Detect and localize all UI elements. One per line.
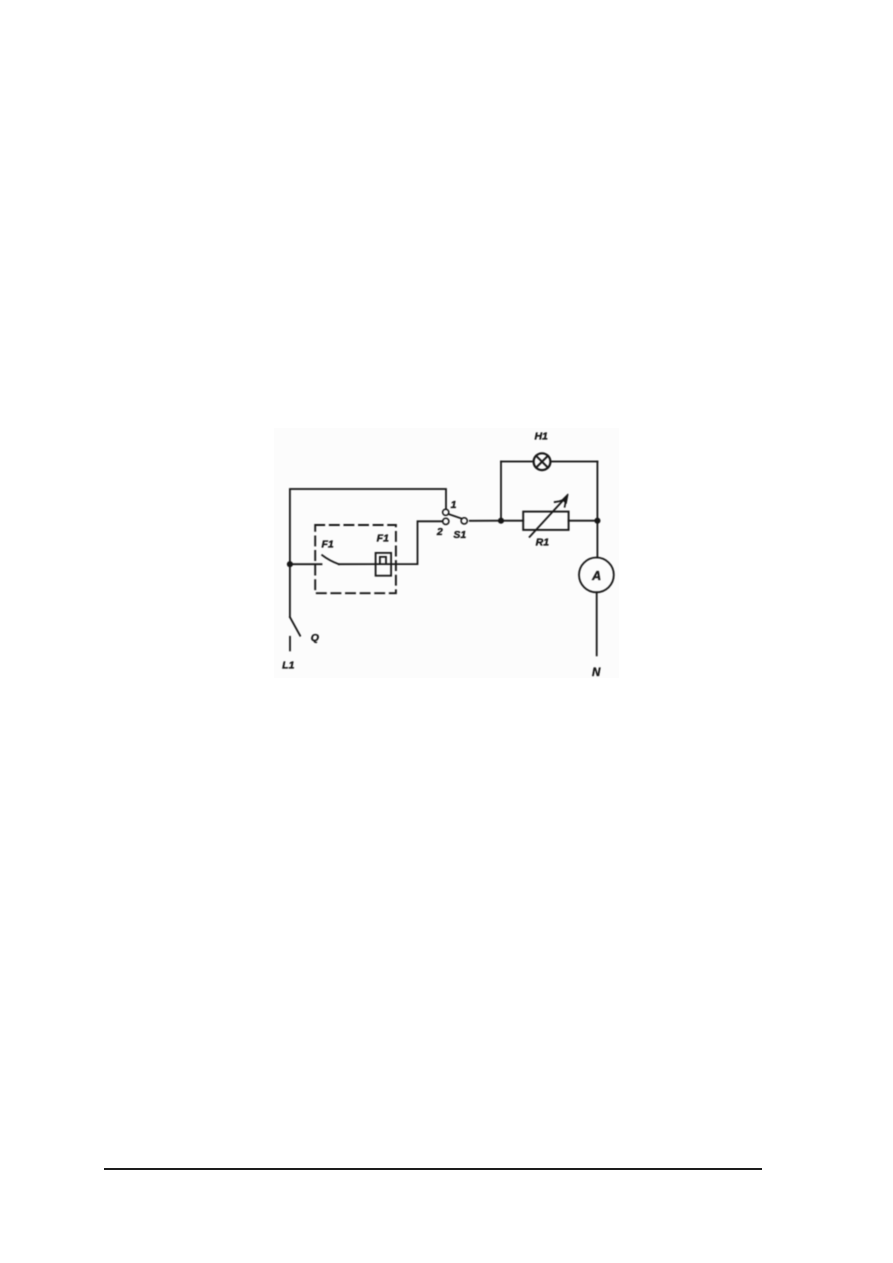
disconnector Q upper wire xyxy=(289,564,291,617)
wire: lamp top rail left segment xyxy=(501,461,534,463)
disconnector Q lower stub xyxy=(289,637,291,651)
wire: contact F1 to fuse F1 xyxy=(339,563,376,565)
disconnector Q blade xyxy=(290,617,300,636)
svg-text:R1: R1 xyxy=(536,536,550,548)
wire: node to R1 left terminal xyxy=(501,520,523,522)
wire: junction to contact F1 xyxy=(290,563,322,565)
svg-text:2: 2 xyxy=(436,526,443,538)
scanned schematic image block xyxy=(274,428,619,678)
svg-text:A: A xyxy=(591,569,601,583)
svg-text:H1: H1 xyxy=(534,430,548,442)
ammeter A body xyxy=(579,558,614,593)
fuse F1 body xyxy=(376,553,392,576)
wire: S1 common to left parallel node xyxy=(470,520,501,522)
svg-text:F1: F1 xyxy=(321,539,333,551)
wire: ammeter to terminal N xyxy=(596,592,598,655)
dashed enclosure box around F1 xyxy=(315,525,396,593)
wire: left riser and top feeder from node to selector xyxy=(290,489,446,564)
selector S1 blade xyxy=(449,514,462,518)
resistor R1 arrowhead xyxy=(555,494,568,507)
resistor R1 adjustment arrow shaft xyxy=(530,497,566,537)
fuse F1 thermal element xyxy=(380,557,386,564)
selector S1 contact 1 xyxy=(443,509,449,515)
lamp H1 cross xyxy=(536,456,548,468)
svg-text:Q: Q xyxy=(311,632,319,644)
svg-text:1: 1 xyxy=(451,499,457,511)
wire: through fuse and up to selector contact 2 xyxy=(376,521,443,564)
node: main left junction dot xyxy=(287,561,293,567)
selector S1 common pole xyxy=(461,518,467,524)
resistor R1 body xyxy=(523,512,568,530)
footer horizontal rule xyxy=(104,1168,762,1170)
svg-text:F1: F1 xyxy=(377,532,389,544)
svg-text:S1: S1 xyxy=(453,529,466,541)
wire: left branch riser to lamp level xyxy=(500,462,502,521)
wire: lamp top rail right segment xyxy=(550,461,597,463)
selector S1 contact 2 xyxy=(443,518,449,524)
wire: right branch riser down to ammeter xyxy=(596,462,598,558)
svg-text:N: N xyxy=(592,667,601,678)
contact F1 blade xyxy=(322,555,339,564)
node: left parallel junction dot xyxy=(498,518,504,524)
svg-text:L1: L1 xyxy=(282,660,294,672)
lamp H1 body xyxy=(534,453,551,470)
node: right parallel junction dot xyxy=(594,518,600,524)
wire: R1 right terminal to right parallel node xyxy=(569,520,598,522)
